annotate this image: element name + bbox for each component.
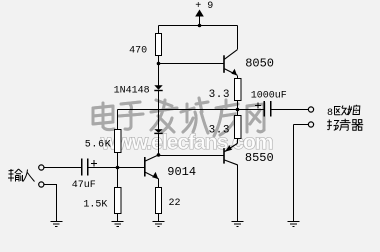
svg-text:1000uF: 1000uF [251, 91, 287, 102]
svg-text:5.6K: 5.6K [85, 139, 112, 150]
svg-text:470: 470 [129, 46, 147, 57]
svg-text:3.3: 3.3 [209, 125, 230, 137]
svg-text:8: 8 [327, 108, 333, 119]
svg-text:1.5K: 1.5K [83, 200, 107, 211]
svg-text:22: 22 [168, 198, 180, 209]
svg-text:8050: 8050 [245, 57, 274, 71]
svg-text:+ 9: + 9 [195, 1, 213, 12]
svg-text:3.3: 3.3 [209, 89, 230, 101]
svg-text:9014: 9014 [167, 165, 196, 179]
svg-text:8550: 8550 [245, 151, 274, 165]
svg-text:1N4148: 1N4148 [114, 86, 150, 97]
svg-text:47uF: 47uF [72, 180, 96, 191]
